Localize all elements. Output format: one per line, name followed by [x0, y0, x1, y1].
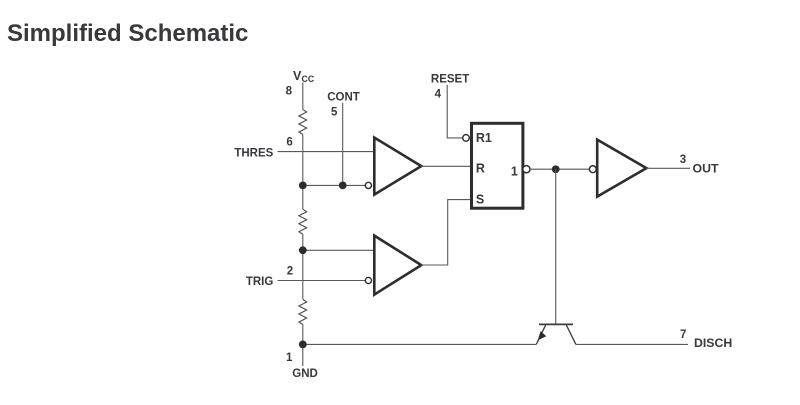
svg-text:RESET: RESET — [431, 73, 469, 85]
wire R3 to GND — [302, 324, 304, 366]
svg-text:Simplified Schematic: Simplified Schematic — [7, 20, 248, 47]
svg-text:5: 5 — [331, 107, 338, 119]
wire R1 to R2 — [302, 134, 304, 209]
svg-text:3: 3 — [680, 154, 686, 166]
wire THRES — [278, 151, 374, 153]
junction dot output node — [552, 165, 560, 173]
resistor R1 — [299, 109, 307, 134]
svg-text:OUT: OUT — [693, 162, 719, 176]
wire vcc stem — [302, 83, 304, 110]
svg-text:CONT: CONT — [327, 92, 360, 104]
wire divider tap to comparator minus — [303, 184, 365, 186]
junction dot divider top tap — [299, 182, 307, 190]
latch U3 (SR flip-flop box) — [463, 123, 530, 208]
wire GND rail to emitter — [303, 343, 537, 345]
node VCC label — [293, 69, 315, 84]
wire output node to transistor base — [555, 169, 557, 323]
svg-text:R: R — [476, 162, 485, 176]
wire RESET stem — [447, 85, 462, 138]
junction dot CONT tap — [339, 182, 347, 190]
svg-text:4: 4 — [435, 89, 442, 101]
junction dot GND node — [299, 341, 307, 349]
wire latch output to buffer — [530, 168, 589, 170]
wire comparator U2 output to latch S — [421, 200, 471, 265]
svg-text:CC: CC — [302, 74, 315, 84]
svg-text:S: S — [476, 193, 484, 207]
svg-text:7: 7 — [680, 329, 686, 341]
junction dot divider mid tap — [299, 246, 307, 254]
svg-text:DISCH: DISCH — [694, 336, 732, 350]
wire buffer output — [646, 167, 690, 169]
resistor R2 — [299, 209, 307, 234]
wire CONT stem — [342, 103, 344, 186]
op-amp output buffer U4 — [589, 140, 646, 197]
svg-text:1: 1 — [286, 352, 293, 364]
svg-text:R1: R1 — [476, 131, 492, 145]
resistor R3 — [299, 299, 307, 324]
wire divider mid tap to comparator plus — [303, 249, 373, 251]
wire comparator U1 output to latch R — [421, 165, 471, 167]
op-amp comparator U1 (threshold) — [365, 138, 421, 195]
svg-text:1: 1 — [511, 165, 518, 179]
svg-text:TRIG: TRIG — [246, 276, 274, 288]
svg-text:8: 8 — [286, 86, 293, 98]
svg-text:GND: GND — [292, 368, 318, 380]
wire R2 to R3 — [302, 234, 304, 299]
op-amp comparator U2 (trigger) — [365, 236, 421, 295]
transistor Q1 (discharge) — [536, 324, 576, 344]
wire collector to DISCH — [576, 343, 688, 345]
svg-text:THRES: THRES — [234, 147, 273, 159]
svg-text:6: 6 — [286, 137, 292, 149]
wire TRIG — [278, 280, 366, 282]
svg-text:2: 2 — [287, 266, 293, 278]
